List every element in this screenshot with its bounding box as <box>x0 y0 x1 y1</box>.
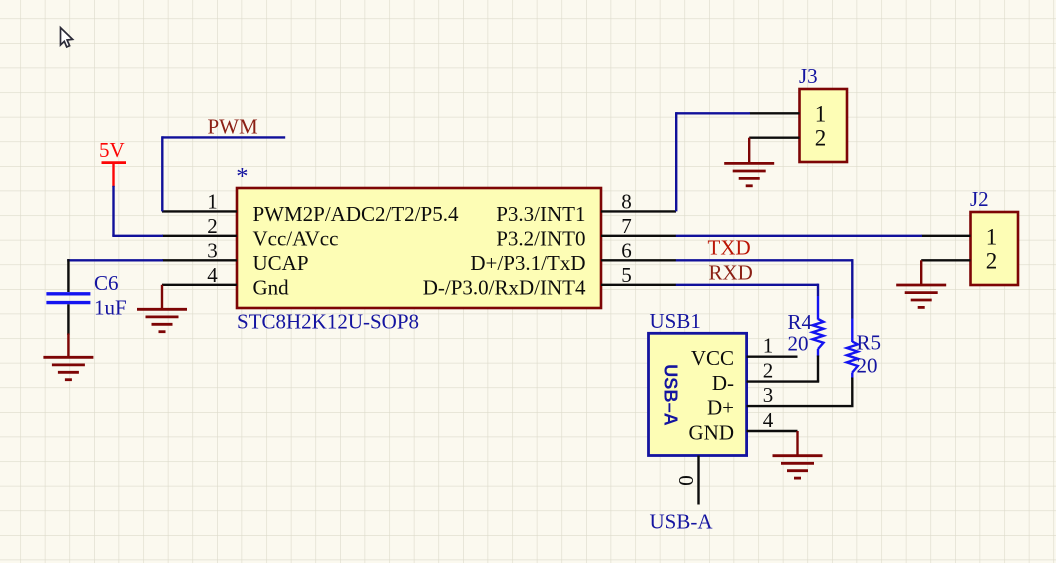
svg-text:4: 4 <box>763 408 774 432</box>
resistor R5 bottom lead <box>851 373 853 379</box>
svg-text:2: 2 <box>986 249 998 274</box>
pin 2 <box>162 235 237 237</box>
power 5V lead <box>112 163 114 187</box>
svg-text:1uF: 1uF <box>94 296 127 320</box>
svg-text:GND: GND <box>689 421 735 445</box>
svg-text:UCAP: UCAP <box>253 251 309 275</box>
svg-text:RXD: RXD <box>709 260 753 284</box>
USB1 pin 4 <box>747 430 798 432</box>
svg-text:USB–A: USB–A <box>661 364 681 426</box>
wire RXD: IC pin5 to R4 <box>676 284 818 286</box>
ground below C6 <box>67 334 69 358</box>
svg-text:*: * <box>236 163 248 190</box>
svg-text:5V: 5V <box>99 138 125 162</box>
svg-text:20: 20 <box>788 332 809 356</box>
svg-text:R5: R5 <box>857 331 882 355</box>
capacitor C6 plates <box>46 292 90 295</box>
svg-text:R4: R4 <box>788 310 813 334</box>
pin 7 <box>601 235 676 237</box>
svg-text:STC8H2K12U-SOP8: STC8H2K12U-SOP8 <box>237 310 419 334</box>
svg-text:2: 2 <box>207 214 218 238</box>
svg-text:VCC: VCC <box>691 346 734 370</box>
pin 4 <box>162 284 237 286</box>
svg-text:1: 1 <box>815 102 827 127</box>
USB1 pin 2 <box>747 380 798 382</box>
svg-text:2: 2 <box>815 126 827 151</box>
svg-text:D-: D- <box>712 371 734 395</box>
svg-text:8: 8 <box>621 189 632 213</box>
svg-text:1: 1 <box>763 334 774 358</box>
pin 1 <box>162 210 237 212</box>
J3 pin 2 <box>749 136 799 138</box>
svg-text:7: 7 <box>621 214 632 238</box>
USB1 pin 3 <box>747 405 798 407</box>
pin 6 <box>601 259 676 261</box>
connector USB1 body <box>649 333 747 455</box>
ground on IC pin 4 <box>161 285 163 310</box>
svg-text:PWM2P/ADC2/T2/P5.4: PWM2P/ADC2/T2/P5.4 <box>253 202 459 226</box>
resistor R5 top lead <box>851 319 853 343</box>
svg-text:3: 3 <box>207 238 218 262</box>
svg-text:20: 20 <box>857 354 878 378</box>
wire IC pin 7 to J2 pin 1 <box>676 235 922 237</box>
connector J2 body <box>971 212 1019 285</box>
wire PWM vertical to pin 1 <box>161 136 163 211</box>
wire J3 pin1 to IC pin 8 <box>676 112 750 114</box>
pin 3 <box>162 259 237 261</box>
svg-text:P3.3/INT1: P3.3/INT1 <box>496 202 585 226</box>
ground below J2 pin 2 <box>920 260 922 285</box>
ground below USB1 GND pin <box>796 431 798 456</box>
svg-text:1: 1 <box>207 189 218 213</box>
pin 5 <box>601 284 676 286</box>
resistor R4 bottom lead <box>817 349 819 357</box>
svg-text:D-/P3.0/RxD/INT4: D-/P3.0/RxD/INT4 <box>423 275 586 299</box>
svg-text:3: 3 <box>763 383 774 407</box>
USB1 shield pin 0 <box>697 456 699 505</box>
svg-text:2: 2 <box>763 359 774 383</box>
wire PWM horizontal <box>162 136 285 138</box>
svg-text:5: 5 <box>621 263 632 287</box>
svg-text:P3.2/INT0: P3.2/INT0 <box>496 226 585 250</box>
resistor R4 zigzag <box>813 319 824 349</box>
ground below J3 pin 2 <box>748 138 750 164</box>
svg-text:PWM: PWM <box>208 115 259 139</box>
mouse cursor <box>61 28 73 47</box>
svg-text:D+: D+ <box>707 396 734 420</box>
svg-text:C6: C6 <box>94 271 119 295</box>
svg-text:TXD: TXD <box>708 236 751 260</box>
connector J3 body <box>800 89 848 162</box>
J2 pin 1 <box>922 235 971 237</box>
USB1 pin 1 <box>747 356 798 358</box>
svg-text:J2: J2 <box>970 187 989 211</box>
J3 pin 1 <box>750 112 800 114</box>
resistor R5 zigzag <box>847 342 858 373</box>
resistor R4 top lead <box>817 296 819 320</box>
capacitor C6 bottom lead <box>67 304 69 335</box>
svg-text:6: 6 <box>621 238 632 262</box>
capacitor C6 top lead <box>67 259 69 292</box>
svg-text:1: 1 <box>986 225 998 250</box>
svg-text:J3: J3 <box>799 64 818 88</box>
J2 pin 2 <box>921 259 970 261</box>
svg-text:0: 0 <box>674 475 698 486</box>
svg-text:USB1: USB1 <box>650 309 701 333</box>
svg-text:D+/P3.1/TxD: D+/P3.1/TxD <box>470 251 585 275</box>
pin 8 <box>601 210 676 212</box>
svg-text:Gnd: Gnd <box>253 275 290 299</box>
svg-text:Vcc/AVcc: Vcc/AVcc <box>253 226 339 250</box>
svg-text:4: 4 <box>207 263 218 287</box>
wire TXD: IC pin6 to R5 <box>676 259 853 261</box>
power 5V bar symbol <box>102 161 127 164</box>
svg-text:USB-A: USB-A <box>650 510 714 534</box>
op-amp U? main IC body STC8H2K12U-SOP8 <box>237 188 601 308</box>
wire 5V to Vcc pin 2 <box>112 186 114 236</box>
wire UCAP to C6 <box>67 259 163 261</box>
